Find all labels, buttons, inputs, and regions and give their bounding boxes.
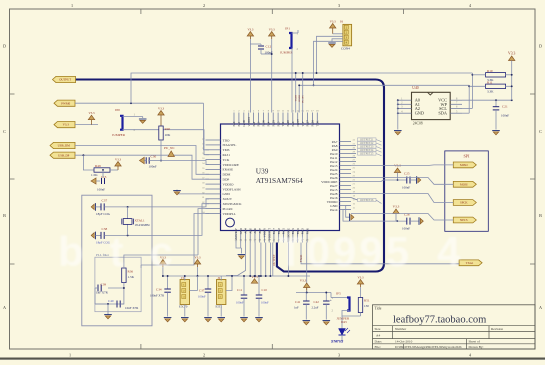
svg-text:Revision: Revision (491, 327, 503, 331)
svg-text:100nF: 100nF (261, 301, 269, 305)
svg-text:1: 1 (69, 352, 71, 357)
svg-text:C37: C37 (199, 289, 205, 293)
svg-text:100nF: 100nF (198, 295, 206, 299)
svg-text:PWM0: PWM0 (61, 101, 70, 105)
svg-text:Number: Number (395, 327, 407, 331)
svg-text:PA6: PA6 (291, 121, 295, 126)
svg-text:C12: C12 (266, 45, 272, 49)
svg-text:AD5: AD5 (248, 227, 252, 233)
svg-text:SDA: SDA (438, 111, 447, 116)
svg-text:PA28: PA28 (286, 120, 290, 127)
svg-text:C39: C39 (101, 283, 107, 287)
svg-text:STATUS: STATUS (331, 340, 344, 344)
svg-text:MISO: MISO (460, 163, 468, 167)
svg-text:AD4: AD4 (244, 227, 248, 233)
svg-text:1.5K: 1.5K (91, 173, 98, 177)
svg-text:VDDIN: VDDIN (263, 227, 267, 237)
svg-text:V3.3: V3.3 (89, 111, 95, 115)
svg-text:D43: D43 (341, 320, 347, 324)
svg-text:PLLRC: PLLRC (223, 207, 234, 211)
svg-text:leafboy77.taobao.com: leafboy77.taobao.com (393, 315, 486, 326)
svg-text:J6: J6 (340, 20, 343, 24)
svg-text:Size: Size (375, 327, 381, 331)
svg-text:10nF X7R: 10nF X7R (125, 306, 139, 310)
svg-text:C40: C40 (108, 299, 114, 303)
svg-text:U39: U39 (256, 166, 269, 175)
svg-text:Sheet of: Sheet of (469, 340, 481, 344)
svg-text:XOUT: XOUT (223, 197, 233, 201)
svg-text:C: C (3, 129, 6, 134)
svg-text:18.432MHz: 18.432MHz (135, 223, 151, 227)
svg-text:R51: R51 (364, 299, 370, 303)
svg-text:A: A (539, 305, 542, 310)
svg-text:V3.3: V3.3 (358, 275, 364, 279)
svg-text:4: 4 (437, 228, 461, 275)
svg-text:OUTPUT: OUTPUT (272, 254, 276, 266)
svg-text:VDDIO: VDDIO (247, 117, 251, 126)
svg-text:C41: C41 (295, 300, 301, 304)
svg-text:GND: GND (223, 192, 231, 196)
svg-text:PU_NC: PU_NC (302, 95, 305, 103)
svg-text:XIN/PGMCK: XIN/PGMCK (223, 202, 243, 206)
svg-text:TCK: TCK (223, 158, 230, 162)
svg-text:B: B (3, 213, 6, 218)
svg-text:V3.3: V3.3 (115, 157, 121, 161)
svg-text:1: 1 (71, 3, 73, 8)
svg-text:TST: TST (301, 121, 305, 126)
svg-text:C30: C30 (151, 154, 157, 158)
svg-text:A4: A4 (376, 334, 380, 338)
svg-text:100nF: 100nF (402, 186, 410, 190)
svg-text:PA17: PA17 (272, 227, 276, 234)
svg-text:PA0: PA0 (232, 121, 236, 126)
svg-text:V3.3: V3.3 (63, 123, 70, 127)
svg-text:V3.3: V3.3 (247, 27, 253, 31)
svg-text:V3.3: V3.3 (393, 205, 400, 209)
svg-text:3: 3 (338, 352, 340, 357)
svg-text:PA4: PA4 (267, 121, 271, 126)
svg-text:B: B (539, 213, 542, 218)
svg-text:JUMPER: JUMPER (280, 51, 293, 55)
svg-text:C37: C37 (102, 199, 108, 203)
svg-text:T0995: T0995 (278, 228, 412, 275)
svg-text:PA5: PA5 (276, 121, 280, 126)
svg-text:PA30: PA30 (262, 120, 266, 127)
svg-text:V3.3: V3.3 (508, 52, 515, 56)
svg-text:D: D (3, 44, 6, 49)
svg-text:R40: R40 (165, 127, 171, 131)
svg-text:U40: U40 (412, 86, 419, 90)
svg-text:100nF: 100nF (236, 301, 244, 305)
svg-text:3.3K: 3.3K (487, 90, 494, 94)
svg-text:PA26: PA26 (311, 120, 315, 127)
svg-text:Title: Title (375, 307, 382, 311)
svg-text:100nF: 100nF (265, 51, 273, 55)
svg-text:GND: GND (239, 228, 243, 234)
svg-text:V3.3: V3.3 (330, 19, 336, 23)
svg-text:1nF: 1nF (294, 306, 299, 310)
svg-text:C10: C10 (262, 288, 268, 292)
svg-text:VDDPLL: VDDPLL (223, 212, 236, 216)
svg-text:Date:: Date: (375, 340, 382, 344)
svg-text:PA27: PA27 (306, 120, 310, 127)
svg-text:AD7: AD7 (258, 227, 262, 233)
svg-text:USB_DM: USB_DM (58, 144, 71, 148)
svg-text:TDO: TDO (223, 138, 231, 142)
svg-text:File:: File: (375, 345, 381, 349)
svg-text:OUTPUT26: OUTPUT26 (360, 199, 374, 202)
svg-text:AD6: AD6 (253, 227, 257, 233)
svg-text:E5C70: E5C70 (179, 305, 188, 309)
svg-text:NPCS: NPCS (460, 218, 468, 222)
svg-text:DDP: DDP (223, 178, 230, 182)
svg-text:ERASE: ERASE (223, 168, 234, 172)
svg-text:DDM: DDM (223, 173, 231, 177)
svg-text:C11: C11 (237, 288, 243, 292)
svg-text:2: 2 (203, 352, 205, 357)
svg-text:C34: C34 (156, 288, 162, 292)
svg-text:NRST: NRST (296, 119, 300, 127)
svg-text:SPCK: SPCK (460, 201, 468, 205)
svg-text:100nF: 100nF (97, 188, 105, 192)
svg-text:PA1: PA1 (237, 121, 241, 126)
svg-text:ITAGSEL: ITAGSEL (223, 143, 237, 147)
svg-text:JUMPER: JUMPER (112, 133, 126, 137)
svg-text:OUTPUT25: OUTPUT25 (360, 153, 374, 156)
svg-text:MOSI: MOSI (460, 182, 468, 186)
svg-text:1.5K: 1.5K (128, 275, 135, 279)
svg-text:GND: GND (415, 111, 424, 116)
svg-text:10K: 10K (165, 133, 171, 137)
svg-text:D:\PROTEL99\design\PROTEL99\my: D:\PROTEL99\design\PROTEL99\mywork.Ddb (395, 345, 462, 349)
svg-text:R11: R11 (487, 80, 493, 84)
svg-text:JP1: JP1 (285, 27, 290, 31)
svg-text:TXA1: TXA1 (466, 261, 474, 265)
svg-text:PA14: PA14 (330, 208, 338, 212)
svg-text:VDDIO: VDDIO (223, 182, 234, 186)
svg-text:PA3: PA3 (257, 121, 261, 126)
svg-text:TMS: TMS (223, 148, 230, 152)
svg-text:USB_DP: USB_DP (58, 153, 70, 157)
svg-text:JP0: JP0 (115, 108, 120, 112)
svg-text:100nF X7R: 100nF X7R (150, 294, 164, 298)
svg-text:SPI: SPI (464, 154, 471, 159)
svg-text:2.2uF: 2.2uF (312, 306, 319, 310)
svg-text:V3.3: V3.3 (300, 279, 307, 283)
svg-text:100nF: 100nF (501, 114, 509, 118)
svg-text:D: D (539, 44, 542, 49)
svg-text:PA29: PA29 (271, 120, 275, 127)
svg-text:1nF X7R: 1nF X7R (96, 291, 109, 295)
svg-text:C21: C21 (502, 105, 508, 109)
svg-text:18pF COG: 18pF COG (96, 212, 111, 216)
svg-text:CON4: CON4 (341, 47, 350, 51)
svg-text:PA2: PA2 (252, 121, 256, 126)
svg-text:AT91SAM7S64: AT91SAM7S64 (256, 176, 303, 185)
svg-text:C25: C25 (404, 172, 410, 176)
svg-text:JP5: JP5 (336, 292, 341, 296)
svg-text:R49: R49 (95, 164, 101, 168)
svg-text:GND: GND (242, 120, 246, 126)
svg-text:2: 2 (203, 3, 205, 8)
svg-text:24C08: 24C08 (413, 121, 423, 125)
svg-text:VDDFLASH: VDDFLASH (223, 187, 242, 191)
svg-text:R10: R10 (487, 69, 493, 73)
svg-text:J3: J3 (181, 276, 184, 280)
svg-text:OUTPUT: OUTPUT (59, 78, 71, 82)
svg-text:VDDCORE: VDDCORE (223, 163, 239, 167)
svg-text:A: A (3, 305, 6, 310)
svg-text:100nF: 100nF (149, 165, 157, 169)
svg-text:TDI: TDI (281, 122, 285, 127)
svg-text:V3.3: V3.3 (269, 27, 275, 31)
svg-text:btc: btc (58, 228, 199, 275)
svg-text:PU_NC: PU_NC (164, 146, 175, 150)
svg-text:V3.3: V3.3 (158, 106, 164, 110)
svg-text:PA31: PA31 (223, 153, 231, 157)
svg-text:J2: J2 (217, 276, 220, 280)
svg-text:3: 3 (338, 3, 340, 8)
svg-text:Drawn By:: Drawn By: (469, 345, 484, 349)
svg-text:C: C (539, 129, 542, 134)
svg-text:C42: C42 (314, 300, 320, 304)
svg-text:14-Oct-2010: 14-Oct-2010 (395, 340, 413, 344)
svg-text:130: 130 (364, 304, 369, 308)
svg-text:TDK: TDK (316, 120, 320, 127)
